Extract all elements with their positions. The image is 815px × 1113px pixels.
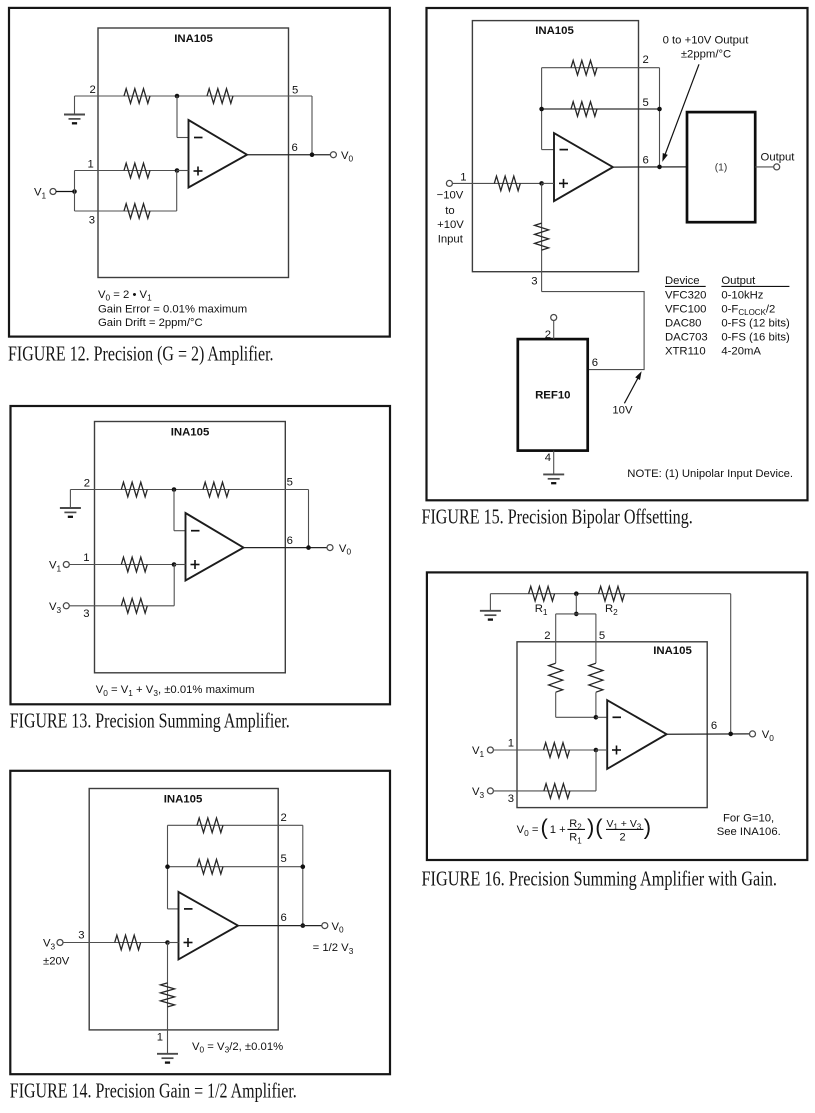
svg-text:VFC100: VFC100 xyxy=(665,303,706,315)
svg-text:5: 5 xyxy=(287,476,293,488)
svg-text:5: 5 xyxy=(643,97,649,109)
svg-text:6: 6 xyxy=(711,720,717,732)
svg-text:−10V: −10V xyxy=(437,189,464,201)
svg-text:0-FS (12 bits): 0-FS (12 bits) xyxy=(721,317,790,329)
svg-text:1 +: 1 + xyxy=(550,824,566,836)
svg-text:INA105: INA105 xyxy=(174,33,213,45)
svg-text:3: 3 xyxy=(78,929,84,941)
svg-text:5: 5 xyxy=(281,853,287,865)
svg-text:INA105: INA105 xyxy=(535,25,574,37)
svg-text:INA105: INA105 xyxy=(164,794,203,806)
svg-text:DAC703: DAC703 xyxy=(665,332,708,344)
svg-text:): ) xyxy=(587,814,594,839)
svg-text:0-FS (16 bits): 0-FS (16 bits) xyxy=(721,332,790,344)
svg-text:2: 2 xyxy=(643,54,649,66)
svg-text:3: 3 xyxy=(83,608,89,620)
svg-text:1: 1 xyxy=(508,737,514,749)
svg-text:1: 1 xyxy=(88,158,94,170)
svg-text:): ) xyxy=(644,814,651,839)
svg-text:3: 3 xyxy=(508,793,514,805)
svg-text:VFC320: VFC320 xyxy=(665,290,706,302)
svg-text:5: 5 xyxy=(599,630,605,642)
svg-text:10V: 10V xyxy=(612,405,633,417)
svg-text:FIGURE 14. Precision Gain = 1/: FIGURE 14. Precision Gain = 1/2 Amplifie… xyxy=(10,1079,297,1103)
svg-text:Gain Drift = 2ppm/°C: Gain Drift = 2ppm/°C xyxy=(98,317,203,329)
svg-text:4-20mA: 4-20mA xyxy=(721,345,761,357)
svg-text:±20V: ±20V xyxy=(43,955,70,967)
svg-text:+10V: +10V xyxy=(437,219,464,231)
svg-text:6: 6 xyxy=(592,357,598,369)
svg-text:INA105: INA105 xyxy=(171,427,210,439)
svg-text:XTR110: XTR110 xyxy=(665,345,706,357)
svg-text:2: 2 xyxy=(619,832,625,844)
svg-text:6: 6 xyxy=(287,535,293,547)
svg-text:0 to +10V Output: 0 to +10V Output xyxy=(663,35,750,47)
svg-text:1: 1 xyxy=(83,552,89,564)
svg-text:2: 2 xyxy=(281,812,287,824)
svg-text:Output: Output xyxy=(721,275,756,287)
svg-text:For G=10,: For G=10, xyxy=(723,812,774,824)
svg-text:Output: Output xyxy=(761,151,796,163)
svg-text:±2ppm/°C: ±2ppm/°C xyxy=(681,48,731,60)
svg-text:Gain Error = 0.01% maximum: Gain Error = 0.01% maximum xyxy=(98,304,247,316)
svg-text:(: ( xyxy=(595,814,603,839)
svg-text:FIGURE 13. Precision Summing A: FIGURE 13. Precision Summing Amplifier. xyxy=(10,709,290,733)
svg-text:(1): (1) xyxy=(715,162,727,173)
svg-text:(: ( xyxy=(541,814,549,839)
svg-text:0-10kHz: 0-10kHz xyxy=(721,290,763,302)
svg-text:to: to xyxy=(445,205,454,217)
svg-text:6: 6 xyxy=(292,142,298,154)
svg-text:See INA106.: See INA106. xyxy=(717,826,781,838)
svg-text:2: 2 xyxy=(90,84,96,96)
svg-text:5: 5 xyxy=(292,84,298,96)
svg-text:INA105: INA105 xyxy=(653,645,692,657)
svg-text:2: 2 xyxy=(84,478,90,490)
svg-text:NOTE: (1) Unipolar Input Devic: NOTE: (1) Unipolar Input Device. xyxy=(627,468,793,480)
svg-text:3: 3 xyxy=(89,214,95,226)
svg-text:4: 4 xyxy=(545,452,551,464)
svg-text:V0​ = V1​ + V3​, ±0.01% maximu: V0​ = V1​ + V3​, ±0.01% maximum xyxy=(96,684,255,698)
svg-text:DAC80: DAC80 xyxy=(665,317,701,329)
svg-text:Input: Input xyxy=(438,233,464,245)
svg-text:FIGURE 15. Precision Bipolar O: FIGURE 15. Precision Bipolar Offsetting. xyxy=(422,505,693,529)
svg-text:2: 2 xyxy=(544,630,550,642)
svg-text:FIGURE 16. Precision Summing A: FIGURE 16. Precision Summing Amplifier w… xyxy=(422,867,778,891)
svg-text:6: 6 xyxy=(643,155,649,167)
svg-text:1: 1 xyxy=(157,1032,163,1044)
svg-text:3: 3 xyxy=(531,275,537,287)
svg-text:V0​ = V3​/2, ±0.01%: V0​ = V3​/2, ±0.01% xyxy=(192,1041,283,1055)
svg-text:REF10: REF10 xyxy=(535,390,570,402)
svg-text:6: 6 xyxy=(281,912,287,924)
svg-text:2: 2 xyxy=(545,329,551,341)
svg-text:1: 1 xyxy=(460,172,466,184)
svg-text:Device: Device xyxy=(665,275,700,287)
svg-text:FIGURE 12. Precision (G = 2) A: FIGURE 12. Precision (G = 2) Amplifier. xyxy=(8,341,274,365)
svg-text:= 1/2 V3​: = 1/2 V3​ xyxy=(313,942,354,956)
